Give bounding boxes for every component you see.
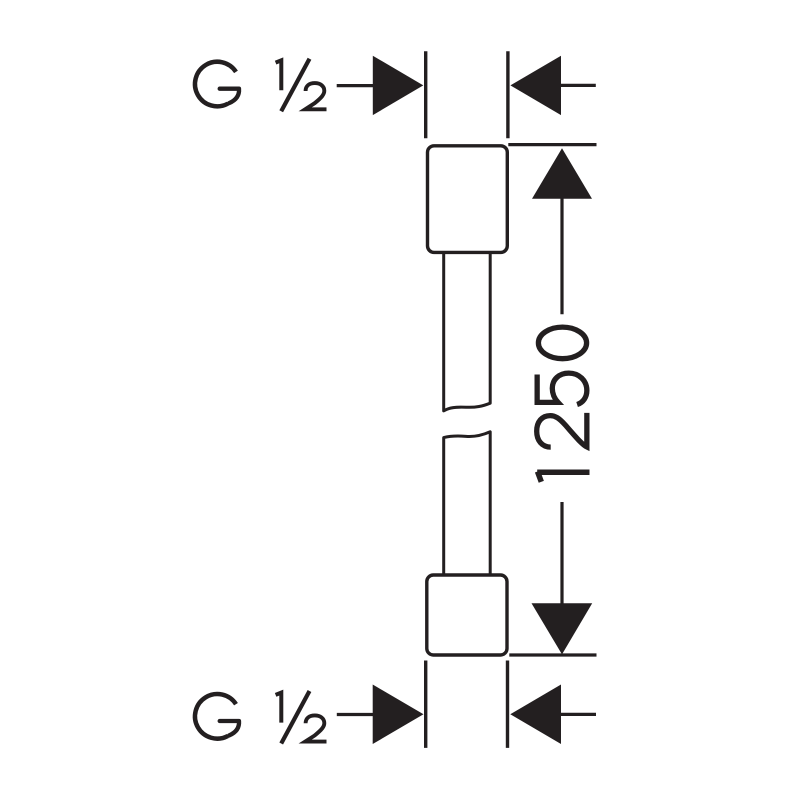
top dimension arrow left: tail xyxy=(337,84,374,87)
bottom extension line right xyxy=(506,661,509,748)
1250 dimension: lower line xyxy=(560,502,563,604)
label 1/2 (top) : digit 2 xyxy=(305,83,326,109)
top extension line right xyxy=(506,51,509,138)
bottom dimension arrow left: head xyxy=(373,685,424,745)
1250 dimension: bottom extension line xyxy=(509,653,596,656)
top connector nut xyxy=(428,146,508,253)
1250 dimension: down arrowhead xyxy=(532,603,593,654)
bottom extension line left xyxy=(424,661,427,748)
digit 2 xyxy=(537,413,587,447)
bottom dimension arrow right: tail xyxy=(560,713,596,716)
bottom connector nut xyxy=(427,575,507,655)
bottom dimension arrow left: tail xyxy=(337,713,374,716)
top dimension arrow right: head xyxy=(510,56,561,115)
lower hose segment with break xyxy=(444,432,491,575)
top dimension arrow left: head xyxy=(373,56,424,115)
label G (bottom) xyxy=(195,694,239,739)
bottom dimension arrow right: head xyxy=(510,685,561,745)
top dimension arrow right: tail xyxy=(560,84,596,87)
top extension line left xyxy=(424,51,427,138)
1250 dimension text xyxy=(537,327,590,482)
label 1/2 (bottom) xyxy=(276,691,327,744)
digit 1 xyxy=(537,472,589,482)
1250 dimension: upper line xyxy=(560,197,563,314)
label 1/2 (top) : fraction slash xyxy=(281,59,309,111)
1250 dimension: up arrowhead xyxy=(532,148,592,199)
digit 0 xyxy=(538,327,586,359)
digit 5 xyxy=(537,373,587,404)
1250 dimension: top extension line xyxy=(508,143,596,146)
label 1/2 (top) : digit 1 xyxy=(276,60,282,90)
label G (top) xyxy=(195,62,239,107)
upper hose segment with break xyxy=(444,253,491,411)
